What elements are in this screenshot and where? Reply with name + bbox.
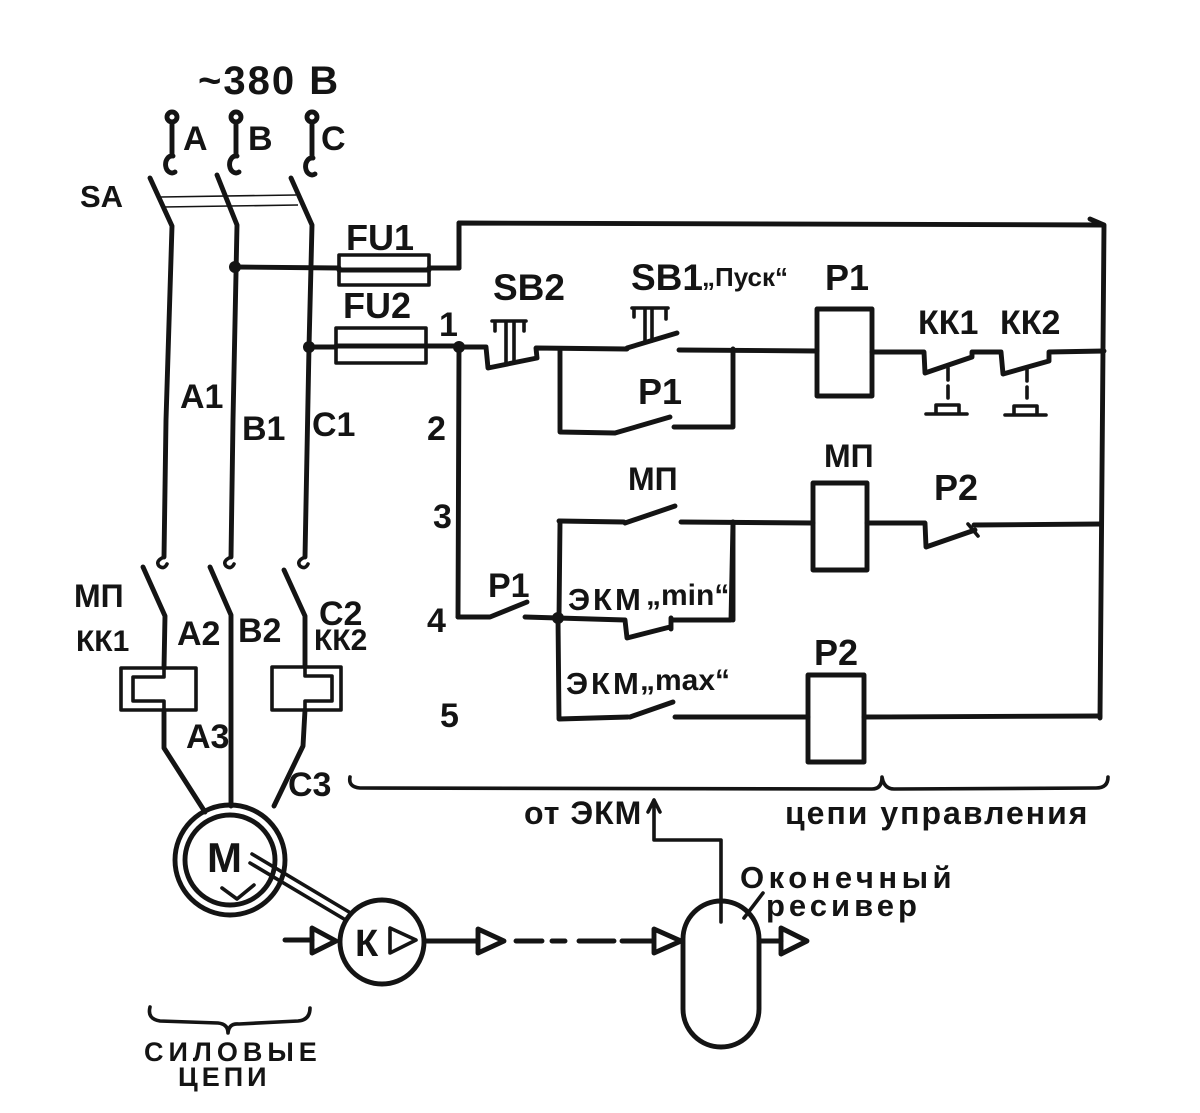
- svg-text:A: A: [183, 120, 208, 158]
- svg-text:ЭКМ: ЭКМ: [566, 666, 642, 701]
- svg-text:SB1: SB1: [631, 257, 703, 298]
- svg-text:от ЭКМ: от ЭКМ: [524, 795, 642, 831]
- svg-text:МП: МП: [824, 438, 874, 474]
- svg-text:A2: A2: [177, 615, 220, 653]
- svg-text:МП: МП: [628, 461, 678, 497]
- svg-text:P1: P1: [825, 257, 869, 298]
- svg-text:К: К: [355, 923, 379, 965]
- svg-text:FU1: FU1: [346, 217, 414, 258]
- svg-text:„Пуск“: „Пуск“: [702, 262, 788, 292]
- svg-text:цепи управления: цепи управления: [785, 795, 1089, 831]
- svg-text:МП: МП: [74, 578, 124, 614]
- svg-text:C: C: [321, 120, 346, 158]
- svg-text:FU2: FU2: [343, 285, 411, 326]
- svg-text:P2: P2: [814, 632, 858, 673]
- svg-text:ЭКМ: ЭКМ: [568, 582, 644, 617]
- svg-text:P1: P1: [638, 371, 682, 412]
- svg-text:„max“: „max“: [640, 664, 730, 697]
- svg-text:КК2: КК2: [1000, 304, 1060, 342]
- svg-text:4: 4: [427, 602, 446, 640]
- svg-text:B: B: [248, 120, 273, 158]
- svg-text:SB2: SB2: [493, 267, 565, 308]
- svg-text:КК2: КК2: [314, 624, 367, 657]
- svg-text:~380 В: ~380 В: [198, 59, 340, 103]
- svg-text:„min“: „min“: [646, 579, 729, 612]
- svg-text:ресивер: ресивер: [766, 888, 921, 923]
- svg-text:P2: P2: [934, 467, 978, 508]
- svg-text:C3: C3: [288, 766, 331, 804]
- svg-text:2: 2: [427, 410, 446, 448]
- svg-text:A1: A1: [180, 378, 223, 416]
- svg-text:SA: SA: [80, 179, 123, 214]
- svg-text:C1: C1: [312, 406, 355, 444]
- svg-text:A3: A3: [186, 718, 229, 756]
- svg-text:КК1: КК1: [76, 625, 129, 658]
- svg-text:B2: B2: [238, 612, 281, 650]
- svg-text:КК1: КК1: [918, 304, 978, 342]
- svg-text:3: 3: [433, 498, 452, 536]
- svg-text:1: 1: [439, 306, 458, 344]
- svg-text:P1: P1: [488, 567, 530, 605]
- svg-text:М: М: [207, 834, 242, 881]
- svg-text:5: 5: [440, 697, 459, 735]
- svg-text:ЦЕПИ: ЦЕПИ: [178, 1062, 271, 1092]
- svg-text:B1: B1: [242, 410, 285, 448]
